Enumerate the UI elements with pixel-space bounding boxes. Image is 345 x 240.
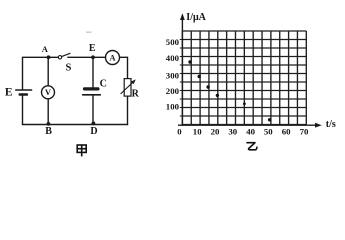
- svg-text:20: 20: [211, 126, 220, 136]
- svg-text:10: 10: [193, 126, 202, 136]
- svg-text:30: 30: [228, 126, 237, 136]
- svg-text:E: E: [89, 43, 96, 54]
- svg-text:D: D: [90, 126, 97, 137]
- faint scan smudge: [86, 32, 92, 33]
- svg-text:S: S: [65, 62, 71, 73]
- svg-text:I/μA: I/μA: [186, 12, 206, 23]
- ammeter A: [106, 51, 120, 65]
- y axis: [180, 13, 185, 126]
- x tick labels: [177, 126, 309, 136]
- svg-text:300: 300: [166, 71, 180, 81]
- svg-text:500: 500: [166, 37, 180, 47]
- svg-text:40: 40: [246, 126, 255, 136]
- data point t=50: [268, 118, 271, 121]
- capacitor C: [82, 87, 101, 95]
- svg-text:C: C: [100, 78, 107, 89]
- wire top: [23, 56, 128, 58]
- node D: [92, 122, 96, 126]
- wire left: [22, 57, 24, 125]
- svg-text:100: 100: [166, 101, 180, 111]
- x axis: [178, 123, 322, 128]
- wire bottom: [22, 124, 128, 126]
- data point t=5: [188, 60, 191, 63]
- svg-text:70: 70: [300, 126, 309, 136]
- caption 乙: [247, 143, 257, 150]
- data point t=10: [198, 75, 201, 78]
- svg-text:t/s: t/s: [326, 119, 336, 130]
- data point t=20: [216, 94, 219, 97]
- switch S: [58, 53, 70, 59]
- data point t=35: [243, 102, 246, 105]
- node E: [91, 55, 95, 59]
- svg-text:B: B: [45, 126, 52, 137]
- wire capacitor branch: [92, 57, 94, 124]
- svg-text:A: A: [109, 52, 116, 62]
- resistor R (variable): [121, 79, 136, 97]
- svg-text:A: A: [42, 44, 49, 54]
- svg-text:0: 0: [177, 126, 182, 136]
- node B: [47, 122, 51, 126]
- svg-text:60: 60: [282, 126, 291, 136]
- data point t=15: [206, 85, 209, 88]
- wire voltmeter branch: [47, 57, 49, 124]
- voltmeter V: [42, 86, 55, 99]
- svg-text:200: 200: [166, 86, 180, 96]
- y axis ticks: [180, 40, 183, 117]
- node A: [47, 55, 51, 59]
- svg-text:50: 50: [264, 126, 273, 136]
- svg-text:400: 400: [166, 53, 180, 63]
- battery E: [15, 90, 32, 96]
- y tick labels: [166, 37, 180, 112]
- svg-text:E: E: [5, 87, 13, 99]
- caption 甲: [77, 145, 86, 156]
- svg-text:R: R: [132, 89, 140, 100]
- graph grid: [182, 31, 306, 125]
- wire right: [127, 57, 129, 125]
- svg-text:V: V: [45, 87, 52, 97]
